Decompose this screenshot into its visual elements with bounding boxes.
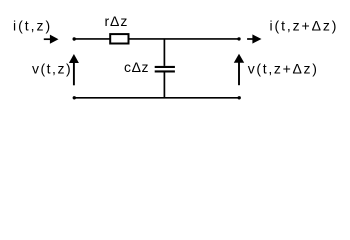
svg-text:i(t,z+Δz): i(t,z+Δz): [270, 17, 339, 33]
capacitor cΔz bottom plate: [155, 70, 175, 72]
svg-text:cΔz: cΔz: [124, 59, 149, 75]
voltage arrow v(t,z+Δz): [234, 54, 244, 85]
node bottom-right: [238, 96, 241, 99]
svg-text:v(t,z): v(t,z): [32, 61, 72, 77]
capacitor cΔz bottom lead wire: [163, 73, 165, 98]
capacitor cΔz top lead wire: [163, 39, 165, 66]
wire bottom: [74, 97, 239, 99]
current arrow i(t,z+Δz): [247, 34, 261, 43]
wire top-right segment: [129, 38, 239, 40]
capacitor cΔz top plate: [155, 66, 175, 68]
resistor rΔz: [110, 34, 128, 43]
svg-text:rΔz: rΔz: [105, 13, 129, 29]
svg-text:i(t,z): i(t,z): [13, 17, 52, 33]
node top-left: [73, 37, 76, 40]
wire top-left segment: [74, 38, 110, 40]
node bottom-left: [73, 96, 76, 99]
current arrow i(t,z): [44, 35, 59, 44]
node top-right: [237, 37, 240, 40]
svg-text:v(t,z+Δz): v(t,z+Δz): [248, 61, 319, 77]
voltage arrow v(t,z): [69, 54, 79, 85]
